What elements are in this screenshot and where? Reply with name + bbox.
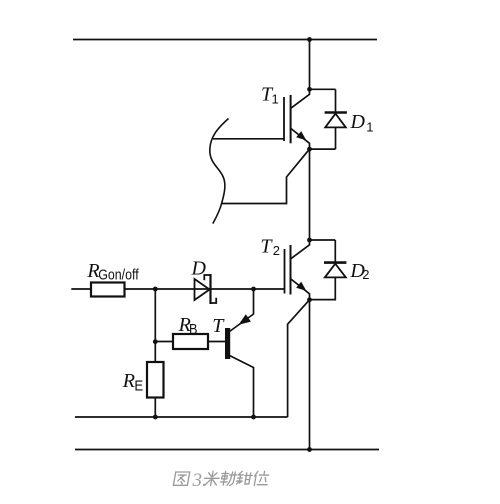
svg-text:1: 1	[272, 92, 279, 107]
transistor T2 emitter lead	[291, 279, 310, 300]
wire: bottom negative rail	[75, 449, 379, 451]
resistor RGon/off body	[91, 283, 125, 297]
diode D2 bottom lead	[310, 277, 336, 299]
svg-text:D: D	[350, 111, 366, 133]
diode D cathode top hook	[204, 275, 210, 280]
caption glyph 位	[253, 471, 270, 485]
node: T1 emitter junction	[307, 147, 312, 152]
wire: RE branch vertical	[154, 289, 156, 417]
diode D2 cathode bar	[324, 261, 346, 264]
svg-text:D: D	[191, 258, 207, 280]
svg-text:2: 2	[362, 267, 369, 282]
node: T1 collector junction	[307, 87, 312, 92]
node: top rail / T1 collector tap	[307, 37, 312, 42]
diode D1 top lead	[335, 89, 337, 112]
node: RE bottom junction	[153, 415, 158, 420]
transistor T emitter lead up to gate node	[230, 289, 254, 332]
wire: T1 emitter junction to D1 anode	[310, 148, 336, 150]
caption glyph 钳	[236, 471, 253, 484]
diode D cathode bottom hook	[211, 298, 217, 303]
caption glyph 图	[173, 472, 189, 485]
resistor RE body	[147, 362, 164, 398]
transistor T (PNP) base bar	[225, 328, 230, 359]
node: RB branch junction	[153, 339, 158, 344]
transistor T collector lead down to rail	[230, 356, 254, 418]
wire: T1 emitter return to driver	[222, 149, 310, 203]
node: gate wire branch to RE	[153, 287, 158, 292]
wire: T2 emitter return to lower rail	[288, 300, 310, 417]
transistor T emitter arrow	[239, 314, 251, 325]
caption glyph 勒	[220, 471, 237, 485]
wire: T2 collector junction to D2 cathode	[310, 239, 336, 241]
svg-text:E: E	[134, 377, 143, 394]
node: T2 collector junction	[307, 238, 312, 243]
wire: RB to clamp transistor base	[155, 341, 225, 343]
transistor T1 emitter arrow	[296, 131, 306, 140]
diode D1 triangle	[325, 114, 346, 128]
transistor T2 (IGBT) gate bar	[284, 249, 286, 294]
svg-text:T: T	[260, 236, 273, 258]
diode D2 top lead	[334, 240, 336, 263]
diode D2 triangle	[325, 264, 346, 278]
wire: top positive rail	[73, 39, 377, 41]
wire: main vertical T1 emitter to T2 collector	[309, 149, 311, 240]
wire: lower rail (driver return)	[75, 416, 288, 418]
transistor T1 collector lead	[291, 89, 310, 108]
transistor T1 body bar	[290, 95, 292, 143]
svg-text:B: B	[189, 321, 198, 338]
wire: main vertical T2 emitter down to bottom rail	[309, 300, 311, 450]
svg-text:1: 1	[366, 120, 373, 135]
node: gate wire branch to clamp transistor emitter	[251, 287, 256, 292]
wire: T1 collector junction to D1 cathode	[310, 88, 336, 90]
diode D1 cathode bar	[325, 111, 347, 114]
transistor T2 body bar	[290, 245, 292, 295]
caption glyph 米	[203, 471, 220, 485]
svg-text:T: T	[212, 315, 225, 337]
wire: T1 gate wire	[213, 138, 284, 140]
diode D (Schottky clamp) triangle	[195, 279, 210, 300]
node: T2 emitter junction	[307, 297, 312, 302]
svg-text:R: R	[122, 370, 135, 392]
svg-text:Gon/off: Gon/off	[98, 267, 139, 284]
transistor T2 emitter arrow	[296, 282, 306, 291]
node: main vertical on bottom rail	[307, 447, 312, 452]
transistor T1 (IGBT) gate bar	[283, 97, 285, 141]
svg-text:2: 2	[273, 243, 280, 258]
transistor T1 emitter lead	[291, 129, 310, 150]
wire: top rail to T1 collector	[309, 40, 311, 90]
svg-text:3.: 3.	[192, 470, 207, 491]
resistor RB body	[173, 334, 208, 349]
diode D1 bottom lead	[335, 127, 337, 149]
node: T collector junction on rail	[251, 415, 256, 420]
transistor T2 collector lead	[291, 240, 310, 259]
wire: T2 gate wire	[71, 288, 284, 290]
diode D cathode bar	[209, 274, 211, 304]
wire: gate-driver break squiggle (upper)	[210, 119, 229, 224]
